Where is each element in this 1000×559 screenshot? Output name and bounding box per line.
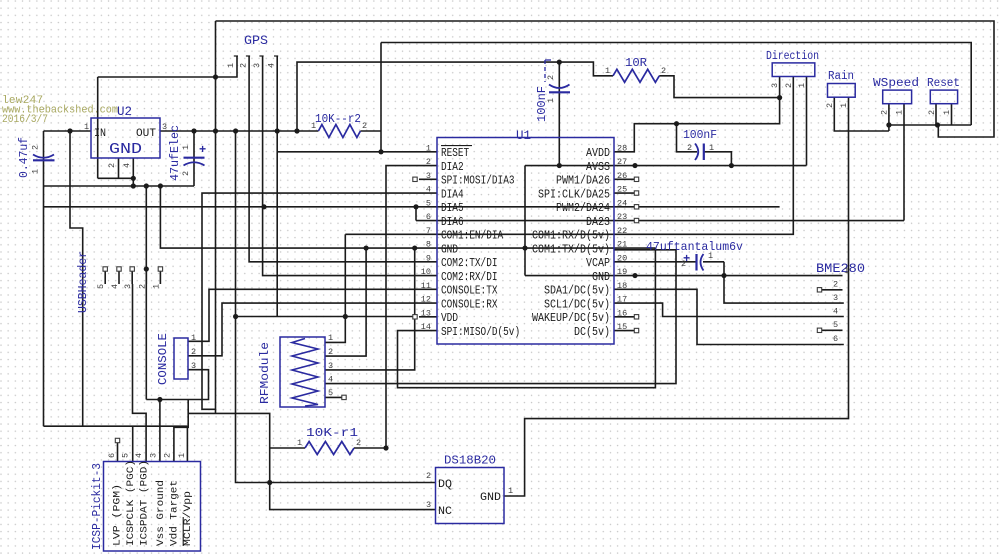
svg-text:5: 5 — [96, 284, 106, 289]
wire ICSP pin1 riser — [186, 426, 188, 462]
svg-text:SDA1/DC(5v): SDA1/DC(5v) — [544, 285, 610, 298]
svg-text:2: 2 — [163, 453, 173, 458]
unconnected pin squares — [413, 177, 417, 181]
wire RF pin3 net — [325, 248, 415, 370]
svg-text:Reset: Reset — [927, 77, 960, 90]
svg-text:COM2:TX/DI: COM2:TX/DI — [441, 257, 498, 270]
wire ICSP pin4 dogleg to USB pin3 — [133, 284, 147, 462]
capacitor 0.47uf — [33, 155, 54, 158]
svg-text:Rain: Rain — [828, 70, 854, 83]
wire BME280 pin3 gnd — [724, 262, 844, 303]
svg-text:GND: GND — [480, 492, 501, 504]
svg-text:3: 3 — [123, 284, 133, 289]
svg-text:2: 2 — [362, 121, 367, 131]
svg-text:DIA6: DIA6 — [441, 216, 464, 229]
svg-text:2: 2 — [833, 280, 838, 290]
wire GND19 row to BME280 pin1 — [525, 275, 843, 277]
svg-text:AVDD: AVDD — [586, 147, 610, 160]
wire GPS pin ticks — [234, 55, 238, 57]
svg-text:10K--r2: 10K--r2 — [315, 112, 361, 126]
wire DIA6/DA23 row to WSpeed pin1 — [416, 220, 904, 222]
wire DIA2 row and riser to 10K-r1 — [386, 166, 437, 448]
svg-text:2: 2 — [137, 284, 147, 289]
svg-text:RFModule: RFModule — [258, 342, 272, 404]
svg-text:COM1:RX/D(5v): COM1:RX/D(5v) — [532, 230, 610, 243]
svg-text:1: 1 — [191, 333, 196, 343]
wire DIA5-DIA6 link riser x=416 — [415, 207, 417, 221]
wire CONSOLE:TX row and console pin1 — [188, 289, 437, 341]
svg-text:Vss Ground: Vss Ground — [155, 480, 166, 546]
wire RESET net y=42.5 to top-right — [381, 43, 971, 126]
svg-text:0.47uf: 0.47uf — [18, 137, 31, 178]
svg-text:SPI:CLK/DA25: SPI:CLK/DA25 — [538, 188, 610, 201]
svg-text:RESET: RESET — [441, 147, 469, 160]
svg-text:VDD: VDD — [441, 312, 458, 325]
svg-text:24: 24 — [617, 198, 627, 208]
wire SDA1 to BME280 pin6 — [614, 289, 844, 344]
wire ICSP pin5 riser — [132, 426, 134, 462]
svg-text:1: 1 — [839, 103, 849, 108]
IC U1 main microcontroller — [437, 138, 614, 345]
wire 3.3V rail riser x=298 to y=62 run — [297, 62, 613, 131]
wire reset/wspeed rail y=125 — [889, 124, 971, 126]
svg-text:4: 4 — [426, 185, 431, 195]
svg-text:GND: GND — [441, 243, 458, 256]
svg-text:2016/3/7: 2016/3/7 — [2, 114, 48, 126]
wire SCL1 to BME280 pin4 — [614, 303, 844, 316]
svg-text:LVP (PGM): LVP (PGM) — [112, 484, 123, 546]
svg-text:Direction: Direction — [766, 50, 819, 63]
svg-text:4: 4 — [110, 284, 120, 289]
wire RF pin4 net y=249.8 — [325, 250, 676, 384]
svg-text:20: 20 — [617, 253, 627, 263]
capacitor 100nF c2 — [549, 85, 570, 89]
wire console pin3 to gnd — [146, 370, 208, 400]
svg-text:11: 11 — [421, 281, 431, 291]
wire 10K-r1 leads — [270, 447, 305, 449]
svg-text:1: 1 — [797, 83, 807, 88]
wire GPS pin1 jog to U2 input riser — [98, 56, 237, 77]
wire DIA4 row and drop to H2 — [202, 193, 437, 409]
svg-text:DQ: DQ — [438, 479, 452, 491]
svg-text:1: 1 — [297, 438, 302, 448]
svg-text:5: 5 — [121, 453, 131, 458]
connector Reset — [930, 90, 957, 104]
wire AVSS riser x=525 — [524, 166, 526, 276]
svg-text:DIA4: DIA4 — [441, 188, 464, 201]
connector Rain — [828, 84, 856, 98]
wire vertical GPS pin1 riser x=215.5 — [215, 21, 217, 413]
svg-text:3: 3 — [426, 171, 431, 181]
svg-text:28: 28 — [617, 143, 627, 153]
wire y=413.4 run to 10K-r1 riser — [188, 413, 270, 448]
wire U1 pin26 stub — [614, 178, 635, 180]
svg-text:3: 3 — [191, 361, 196, 371]
svg-text:GND: GND — [592, 271, 610, 284]
svg-text:DA23: DA23 — [586, 216, 610, 229]
svg-text:1: 1 — [151, 284, 161, 289]
svg-text:4: 4 — [833, 307, 838, 317]
svg-text:U2: U2 — [117, 105, 132, 119]
wire Rain pin1 to DS18B20 gnd — [504, 97, 849, 496]
wire BME280 pin2 stub — [822, 289, 843, 291]
svg-text:WSpeed: WSpeed — [873, 77, 919, 90]
svg-text:4: 4 — [122, 163, 132, 168]
svg-text:U1: U1 — [516, 129, 531, 143]
svg-text:+: + — [199, 143, 206, 157]
svg-text:1: 1 — [426, 143, 431, 153]
wire WSpeed pin2 drop — [888, 104, 890, 131]
wire ICSP pin2 dogleg — [174, 400, 188, 462]
svg-text:3: 3 — [770, 83, 780, 88]
svg-text:2: 2 — [328, 347, 333, 357]
svg-text:1: 1 — [844, 266, 849, 276]
svg-text:NC: NC — [438, 506, 452, 518]
wire U1 pin3 stub — [419, 178, 437, 180]
wire GPS pin2 to COM2:TX row — [249, 56, 437, 262]
wire USB pin2 gnd riser x=146.3 — [145, 186, 147, 400]
wire U2 gnd jog y=178.3 — [98, 177, 134, 179]
capacitor 100nF c3 — [695, 144, 698, 161]
wire U1 pin16 stub — [614, 316, 635, 318]
svg-text:2: 2 — [426, 471, 431, 481]
svg-text:4: 4 — [267, 63, 277, 68]
svg-text:SPI:MOSI/DIA3: SPI:MOSI/DIA3 — [441, 175, 515, 188]
svg-text:2: 2 — [687, 143, 692, 153]
wire U1 pin15 stub — [614, 330, 635, 332]
svg-text:2: 2 — [191, 347, 196, 357]
svg-text:47uftantalum6v: 47uftantalum6v — [646, 240, 743, 254]
svg-text:2: 2 — [927, 110, 937, 115]
wire rail riser x=235.5 down to DQ row — [236, 131, 436, 483]
wire gnd y=186 — [44, 185, 195, 187]
svg-text:1: 1 — [226, 63, 236, 68]
svg-text:4: 4 — [134, 453, 144, 458]
svg-text:6: 6 — [107, 453, 117, 458]
svg-text:6: 6 — [426, 212, 431, 222]
svg-text:3: 3 — [833, 293, 838, 303]
wire U2 pin2 stub — [118, 158, 120, 178]
svg-text:5: 5 — [833, 320, 838, 330]
svg-text:7: 7 — [426, 226, 431, 236]
svg-text:Vdd Target: Vdd Target — [169, 480, 180, 546]
svg-text:AVSS: AVSS — [586, 161, 610, 174]
wire RESET row to U1 pin1 — [277, 151, 437, 153]
svg-text:10R: 10R — [625, 56, 647, 70]
svg-text:18: 18 — [617, 281, 627, 291]
svg-text:USBHeader: USBHeader — [76, 251, 90, 313]
svg-text:1: 1 — [181, 145, 191, 150]
svg-text:2: 2 — [784, 83, 794, 88]
svg-text:4: 4 — [328, 375, 333, 385]
svg-text:1: 1 — [311, 121, 316, 131]
svg-text:1: 1 — [546, 98, 556, 103]
svg-text:1: 1 — [508, 486, 513, 496]
wire VDD row — [236, 316, 414, 318]
wire H1 y=426.2 — [44, 425, 188, 427]
svg-text:2: 2 — [825, 103, 835, 108]
wire AVSS row y=165.4 — [525, 165, 807, 167]
svg-text:9: 9 — [426, 253, 431, 263]
wire Reset pin1 drop — [951, 104, 953, 125]
svg-text:COM1:TX/D(5v): COM1:TX/D(5v) — [532, 243, 610, 256]
svg-text:5: 5 — [328, 388, 333, 398]
svg-text:VCAP: VCAP — [586, 257, 610, 270]
svg-text:IN: IN — [94, 128, 106, 140]
svg-text:2: 2 — [426, 157, 431, 167]
wire U2 pin4 stub — [132, 158, 134, 186]
wire GND row y=248 — [160, 186, 655, 248]
wire RF pin5 stub — [325, 396, 342, 398]
wire 3.3V drop x=70 jog x=82.7 to H1 — [70, 131, 83, 426]
svg-text:DS18B20: DS18B20 — [444, 454, 496, 468]
connector WSpeed — [883, 90, 912, 104]
svg-text:1: 1 — [84, 122, 89, 132]
wire 10K-r1 left riser and NC row — [270, 448, 436, 510]
wire ICSP pin3 riser — [159, 400, 161, 462]
wire RF pin2 net — [325, 248, 366, 356]
wire ICSP pin6 stub — [117, 443, 119, 462]
wire Direction pin3 drop to 124 rail — [614, 77, 780, 152]
svg-text:GND: GND — [109, 142, 142, 158]
wire Reset pin2 drop — [935, 104, 937, 125]
svg-text:1: 1 — [328, 333, 333, 343]
svg-text:DIA2: DIA2 — [441, 161, 464, 174]
svg-text:17: 17 — [617, 295, 627, 305]
svg-text:2: 2 — [661, 66, 666, 76]
wire 3.3V rail y=131 left of U2 — [44, 130, 92, 132]
wire RF pin1 to VDD row — [325, 317, 345, 343]
svg-text:COM1:EN/DIA: COM1:EN/DIA — [441, 230, 503, 243]
wire 47ufElec lead — [193, 131, 195, 186]
svg-text:6: 6 — [833, 334, 838, 344]
wire RESET riser x=381 — [380, 43, 382, 152]
svg-text:100nF: 100nF — [683, 128, 717, 142]
wire GPS pin4 / VDD riser x=277.2 — [276, 56, 278, 317]
regulator U2 — [91, 118, 160, 158]
svg-text:OUT: OUT — [136, 128, 156, 140]
wire 10K-r2 to reset riser — [360, 130, 381, 132]
wire WSpeed pin1 drop — [903, 104, 905, 221]
wire 100nF c2 lead — [558, 62, 560, 165]
resistor 10K--r2 — [318, 125, 360, 138]
wire DIA5 long row y=206.5 — [44, 206, 780, 208]
svg-text:26: 26 — [617, 171, 627, 181]
svg-text:ICSPCLK (PGC): ICSPCLK (PGC) — [125, 460, 136, 546]
svg-text:2: 2 — [181, 171, 191, 176]
svg-text:PWM1/DA26: PWM1/DA26 — [556, 175, 610, 188]
wire U1 pin13 stub — [419, 316, 437, 318]
wire tantalum right lead — [703, 261, 724, 263]
svg-text:1: 1 — [942, 110, 952, 115]
svg-text:14: 14 — [421, 322, 431, 332]
connector Direction — [772, 63, 815, 77]
svg-text:8: 8 — [426, 240, 431, 250]
svg-text:3: 3 — [252, 63, 262, 68]
svg-text:12: 12 — [421, 295, 431, 305]
connector CONSOLE — [174, 338, 188, 379]
svg-text:BME280: BME280 — [816, 262, 865, 276]
wire CONSOLE:RX row and console pin2 — [188, 303, 437, 356]
svg-text:GPS: GPS — [244, 34, 268, 48]
svg-text:DIA5: DIA5 — [441, 202, 464, 215]
svg-text:10: 10 — [421, 267, 431, 277]
wire 100nF c3 lead right-down — [704, 152, 731, 166]
capacitor 47uftantalum6v — [695, 254, 697, 271]
svg-text:2: 2 — [356, 438, 361, 448]
svg-text:1: 1 — [709, 143, 714, 153]
svg-text:CONSOLE:TX: CONSOLE:TX — [441, 285, 498, 298]
svg-text:10K-r1: 10K-r1 — [306, 426, 358, 440]
svg-text:1: 1 — [177, 453, 187, 458]
svg-text:CONSOLE: CONSOLE — [156, 333, 170, 385]
wire VCAP row to tantalum — [614, 261, 696, 263]
svg-text:2: 2 — [239, 63, 249, 68]
connector ICSP-Pickit-3 — [104, 462, 201, 552]
svg-text:1: 1 — [31, 169, 41, 174]
svg-text:2: 2 — [107, 163, 117, 168]
wire 100nF c3 lead left-up — [677, 124, 698, 152]
svg-text:2: 2 — [546, 75, 556, 80]
svg-text:15: 15 — [617, 322, 627, 332]
svg-text:21: 21 — [617, 240, 627, 250]
wire Direction pin1 drop to AVSS row — [806, 77, 808, 166]
svg-text:19: 19 — [617, 267, 627, 277]
wire GPS pin3 to COM2:RX row — [263, 56, 437, 276]
svg-text:ICSP-Pickit-3: ICSP-Pickit-3 — [90, 463, 104, 550]
svg-text:3: 3 — [426, 500, 431, 510]
svg-text:SPI:MISO/D(5v): SPI:MISO/D(5v) — [441, 326, 520, 339]
RF module RFModule — [280, 337, 325, 407]
svg-text:23: 23 — [617, 212, 627, 222]
svg-text:1: 1 — [708, 251, 713, 261]
svg-text:DC(5v): DC(5v) — [574, 326, 610, 339]
svg-text:COM2:RX/DI: COM2:RX/DI — [441, 271, 498, 284]
wire USB pin stubs — [104, 271, 106, 284]
svg-text:13: 13 — [421, 308, 431, 318]
capacitor 47ufElec — [184, 157, 205, 159]
svg-text:3: 3 — [149, 453, 159, 458]
svg-text:3: 3 — [162, 122, 167, 132]
ICSP MCLR overline — [182, 517, 184, 546]
wire U2 input vertical x=97.7 — [97, 77, 99, 178]
junction dots — [67, 128, 72, 133]
svg-text:ICSPDAT (PGD): ICSPDAT (PGD) — [139, 460, 150, 546]
resistor 10K-r1 — [305, 442, 354, 455]
U1 RESET overline — [441, 145, 472, 147]
wire Direction pin2 to COM1:EN/COM1:RX row — [345, 77, 793, 235]
wire 3.3V rail y=131 right of U2 to 10K-r2 — [160, 130, 318, 132]
svg-text:22: 22 — [617, 226, 627, 236]
wire Rain pin2 link y=131 — [834, 97, 889, 131]
svg-text:5: 5 — [426, 198, 431, 208]
svg-text:2: 2 — [31, 145, 41, 150]
wire COM1:TX / SPI:MISO link — [398, 248, 656, 388]
svg-text:1: 1 — [895, 110, 905, 115]
wire U1 pin25 stub — [614, 192, 635, 194]
svg-text:27: 27 — [617, 157, 627, 167]
wire COM1:EN riser x=345.3 — [344, 234, 346, 316]
svg-text:25: 25 — [617, 185, 627, 195]
svg-text:1: 1 — [605, 66, 610, 76]
svg-text:PWM2/DA24: PWM2/DA24 — [556, 202, 610, 215]
svg-text:2: 2 — [880, 110, 890, 115]
svg-text:2: 2 — [681, 259, 686, 269]
resistor 10R — [613, 69, 659, 82]
svg-text:CONSOLE:RX: CONSOLE:RX — [441, 298, 498, 311]
IC DS18B20 temperature sensor — [436, 468, 505, 524]
svg-text:3: 3 — [328, 361, 333, 371]
svg-text:WAKEUP/DC(5v): WAKEUP/DC(5v) — [532, 312, 610, 325]
wire top net from GPS pin1 to reset-button loop — [216, 21, 995, 137]
wire 0.47uf lead / DIA5-H1 riser x=43.5 — [43, 131, 45, 426]
svg-text:16: 16 — [617, 308, 627, 318]
wire BME280 pin5 stub — [822, 329, 843, 331]
svg-text:SCL1/DC(5v): SCL1/DC(5v) — [544, 298, 610, 311]
